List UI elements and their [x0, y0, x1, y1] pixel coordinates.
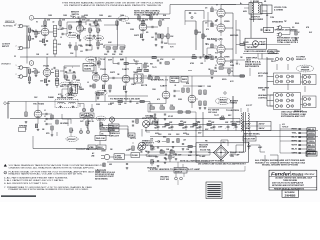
svg-text:V3: V3 — [14, 56, 16, 58]
svg-text:BLU: BLU — [308, 145, 315, 147]
svg-text:.022: .022 — [80, 51, 83, 53]
svg-text:1500: 1500 — [40, 81, 43, 83]
svg-text:.01: .01 — [44, 121, 46, 123]
svg-text:BLU: BLU — [292, 137, 298, 139]
svg-text:525V: 525V — [158, 134, 162, 136]
svg-text:INTENSITY: INTENSITY — [68, 139, 77, 141]
svg-text:1500: 1500 — [39, 41, 42, 43]
svg-text:6.3V CT: 6.3V CT — [246, 105, 252, 107]
svg-text:.02: .02 — [133, 60, 135, 62]
svg-text:250K: 250K — [119, 54, 122, 56]
svg-text:3 WIRE: 3 WIRE — [101, 151, 106, 153]
svg-text:20UF: 20UF — [182, 128, 186, 130]
svg-text:PULL: PULL — [126, 23, 130, 25]
svg-text:-52V: -52V — [183, 140, 186, 142]
svg-text:V9: V9 — [215, 41, 217, 43]
svg-text:VIBRATO: VIBRATO — [1, 62, 11, 65]
svg-text:SELECTOR: SELECTOR — [244, 139, 255, 141]
svg-text:INTENSITY: INTENSITY — [142, 143, 154, 145]
svg-text:.02: .02 — [46, 54, 48, 56]
svg-text:FUSE: FUSE — [132, 155, 138, 157]
svg-text:.001: .001 — [172, 59, 175, 61]
svg-text:1500: 1500 — [55, 80, 59, 82]
svg-text:OUT: OUT — [80, 121, 84, 123]
svg-text:CHOKE: CHOKE — [145, 116, 153, 118]
svg-text:220K: 220K — [192, 55, 195, 57]
svg-text:JUMPER: JUMPER — [301, 67, 310, 69]
svg-text:FROM AMP: FROM AMP — [294, 110, 304, 113]
svg-text:OUTPUT: OUTPUT — [251, 17, 260, 19]
svg-text:THIS FENDER MANUFACTURER UNDER: THIS FENDER MANUFACTURER UNDER ONE OR MO… — [62, 1, 164, 4]
svg-text:25UF: 25UF — [178, 155, 182, 157]
svg-text:INSTRUMENT OUTPUT: INSTRUMENT OUTPUT — [277, 38, 299, 40]
svg-text:10K: 10K — [124, 103, 127, 105]
svg-text:TO SPKR: TO SPKR — [296, 57, 306, 59]
svg-text:REV TR: REV TR — [141, 85, 148, 87]
svg-text:BLK: BLK — [292, 149, 298, 151]
svg-text:REVERB: REVERB — [171, 78, 179, 80]
svg-text:SPEED: SPEED — [84, 116, 91, 118]
svg-text:2: 2 — [16, 46, 17, 48]
svg-text:20MF: 20MF — [190, 127, 194, 129]
svg-text:VOICE COIL: VOICE COIL — [274, 7, 287, 9]
svg-text:820: 820 — [146, 32, 149, 34]
svg-text:7025: 7025 — [43, 66, 49, 68]
svg-text:TREMOLO: TREMOLO — [109, 133, 121, 135]
svg-text:220V: 220V — [259, 124, 265, 126]
svg-text:SPST: SPST — [126, 150, 130, 152]
svg-text:B+: B+ — [240, 3, 242, 5]
svg-text:.01: .01 — [44, 116, 46, 118]
svg-text:500PF: 500PF — [108, 60, 112, 62]
svg-text:READING TAKEN WITH ALL VOLUME: READING TAKEN WITH ALL VOLUME CONTROLS S… — [9, 173, 84, 176]
svg-text:.01: .01 — [174, 85, 176, 87]
svg-text:LINE: LINE — [91, 155, 94, 157]
svg-text:20MF: 20MF — [218, 127, 222, 129]
svg-text:TREBLE: TREBLE — [62, 84, 69, 86]
svg-text:500PF: 500PF — [134, 35, 139, 37]
svg-text:100K: 100K — [170, 36, 173, 38]
svg-text:V6 7025: V6 7025 — [33, 104, 44, 106]
svg-text:POWER: POWER — [230, 101, 239, 103]
svg-text:SLOPE: SLOPE — [58, 29, 63, 31]
svg-text:.01: .01 — [215, 65, 217, 67]
svg-text:VIB: VIB — [89, 147, 94, 149]
svg-text:25K: 25K — [129, 135, 134, 137]
svg-text:470: 470 — [230, 61, 233, 64]
svg-text:TO PI: TO PI — [170, 47, 174, 49]
svg-text:INSTRUMENTS: INSTRUMENTS — [245, 66, 259, 68]
svg-text:115V: 115V — [222, 142, 225, 144]
svg-text:820 NFB: 820 NFB — [243, 42, 249, 44]
svg-text:CIRCUIT: CIRCUIT — [109, 135, 119, 137]
svg-text:TO V4: TO V4 — [100, 58, 105, 61]
svg-text:EXPORT MODEL: EXPORT MODEL — [244, 134, 260, 136]
svg-text:PILOT: PILOT — [260, 42, 266, 44]
svg-text:100K: 100K — [120, 60, 123, 62]
svg-text:JEWEL LT: JEWEL LT — [296, 59, 306, 61]
svg-text:7025: 7025 — [139, 21, 145, 23]
svg-text:500PF: 500PF — [110, 72, 115, 74]
svg-text:REV: REV — [98, 147, 103, 149]
svg-text:FOOT SW: FOOT SW — [160, 179, 170, 181]
svg-text:POST: POST — [121, 18, 127, 20]
svg-text:20UF: 20UF — [168, 128, 172, 130]
svg-text:.01: .01 — [44, 110, 46, 112]
svg-text:PILOT: PILOT — [271, 61, 276, 63]
svg-text:MODEL SHOWN WITH OPTIONS: MODEL SHOWN WITH OPTIONS — [262, 165, 298, 167]
svg-text:470: 470 — [157, 98, 160, 101]
svg-text:RING: RING — [295, 23, 300, 25]
svg-text:60HZ: 60HZ — [258, 147, 262, 149]
svg-text:250K: 250K — [104, 54, 107, 56]
svg-text:TO FOOT SW: TO FOOT SW — [76, 149, 90, 151]
svg-text:470: 470 — [206, 28, 209, 31]
svg-text:4. ALL PART NUMBERS ARE FENDE: 4. ALL PART NUMBERS ARE FENDER PART NUMB… — [4, 176, 69, 179]
svg-text:PREAMP MODELS WITH SERIAL NUMB: PREAMP MODELS WITH SERIAL NUMBERS PRIOR … — [9, 188, 90, 191]
svg-text:5. ALL CAPACITORS AT LEAST 40: 5. ALL CAPACITORS AT LEAST 400 VOLT RATI… — [4, 179, 65, 182]
svg-text:26488: 26488 — [285, 194, 297, 197]
svg-text:NORMAL: NORMAL — [3, 24, 14, 27]
svg-text:VOLUME: VOLUME — [68, 35, 76, 37]
svg-text:1500: 1500 — [152, 89, 156, 91]
svg-text:.02: .02 — [87, 82, 89, 84]
svg-text:1: 1 — [16, 65, 17, 67]
svg-text:COIL: COIL — [269, 52, 275, 54]
svg-text:OHM: OHM — [230, 65, 235, 67]
svg-text:TO PT: TO PT — [214, 115, 219, 117]
svg-text:MIX: MIX — [182, 79, 187, 81]
svg-text:.02: .02 — [60, 37, 62, 39]
svg-text:REV: REV — [150, 64, 153, 66]
svg-text:MVOL: MVOL — [222, 79, 227, 81]
svg-text:50-60 HZ: 50-60 HZ — [200, 150, 210, 152]
svg-text:220K: 220K — [100, 94, 103, 96]
svg-text:20MF: 20MF — [169, 122, 173, 124]
svg-text:50HZ: 50HZ — [247, 146, 251, 148]
svg-text:TWIN REVERB: TWIN REVERB — [283, 180, 298, 182]
svg-text:100K: 100K — [170, 105, 173, 107]
svg-text:2: 2 — [16, 74, 17, 76]
svg-text:PHASE: PHASE — [48, 96, 55, 99]
svg-text:TO AMP: TO AMP — [199, 155, 206, 158]
svg-text:YEL: YEL — [308, 141, 315, 143]
svg-text:REV IN: REV IN — [88, 121, 94, 123]
svg-text:GND: GND — [109, 164, 112, 166]
svg-text:EXT SPKR: EXT SPKR — [258, 73, 269, 75]
svg-text:SWITCH: SWITCH — [72, 14, 80, 16]
svg-text:REV: REV — [79, 87, 82, 89]
svg-text:TO PI: TO PI — [152, 67, 157, 69]
svg-text:Fender: Fender — [271, 172, 290, 177]
svg-text:BRN: BRN — [308, 149, 315, 151]
svg-text:20MF: 20MF — [162, 127, 166, 129]
svg-text:.02: .02 — [60, 26, 62, 28]
svg-text:250K: 250K — [112, 54, 115, 56]
svg-text:Rhodes: Rhodes — [292, 172, 304, 176]
svg-text:CONTROL: CONTROL — [258, 97, 267, 99]
svg-text:V10: V10 — [215, 53, 218, 55]
svg-text:110V: 110V — [245, 124, 251, 126]
svg-text:FUSE: FUSE — [253, 1, 259, 3]
svg-text:820: 820 — [292, 27, 294, 29]
svg-text:3: 3 — [5, 173, 6, 175]
svg-text:TO GRIDS: TO GRIDS — [208, 110, 219, 112]
svg-text:Member: Member — [305, 173, 315, 176]
svg-text:7025: 7025 — [41, 26, 47, 28]
svg-text:MATCHED: MATCHED — [230, 34, 239, 37]
svg-text:SCREEN: SCREEN — [224, 21, 229, 23]
svg-text:100K: 100K — [186, 134, 189, 136]
svg-text:SILICON: SILICON — [199, 144, 208, 146]
svg-text:.02: .02 — [52, 22, 54, 24]
svg-text:6.3V: 6.3V — [282, 124, 285, 126]
svg-text:.022: .022 — [80, 46, 83, 48]
svg-text:V7: V7 — [216, 5, 218, 7]
svg-text:WHT: WHT — [292, 145, 298, 147]
svg-text:500V: 500V — [176, 134, 180, 136]
svg-text:GND: GND — [262, 90, 265, 92]
svg-text:V1: V1 — [36, 22, 38, 24]
svg-text:VIB-REV: VIB-REV — [160, 177, 169, 179]
svg-text:100K: 100K — [160, 105, 163, 107]
svg-text:VIB CH: VIB CH — [84, 66, 93, 68]
svg-text:3W: 3W — [110, 149, 113, 151]
svg-text:DIODES: DIODES — [199, 147, 207, 149]
svg-text:20UF: 20UF — [196, 128, 200, 130]
svg-text:TREMOLO: TREMOLO — [142, 140, 154, 142]
svg-text:OF 6L6: OF 6L6 — [208, 112, 217, 114]
svg-text:2M SPEED: 2M SPEED — [60, 123, 69, 125]
svg-text:EXPORT: EXPORT — [296, 185, 304, 187]
svg-text:470: 470 — [206, 43, 209, 46]
svg-text:.001: .001 — [200, 63, 203, 65]
svg-text:20MF: 20MF — [211, 122, 215, 124]
svg-text:GRN: GRN — [308, 133, 315, 135]
svg-text:.02: .02 — [51, 69, 53, 71]
svg-text:20UF: 20UF — [210, 128, 214, 130]
svg-text:70UF: 70UF — [154, 128, 158, 130]
svg-text:20MF: 20MF — [225, 122, 229, 124]
svg-text:10K: 10K — [101, 134, 103, 136]
svg-text:25UF: 25UF — [155, 157, 159, 159]
svg-text:V1: V1 — [14, 25, 16, 27]
svg-text:6. ALL RESISTORS 1/2 WATT 10%: 6. ALL RESISTORS 1/2 WATT 10%. — [4, 182, 49, 185]
svg-text:100K: 100K — [208, 55, 211, 57]
svg-text:FOOT: FOOT — [175, 169, 181, 171]
svg-text:220K: 220K — [150, 139, 153, 141]
svg-text:7025: 7025 — [100, 69, 106, 71]
svg-text:FILTER: FILTER — [115, 158, 122, 160]
svg-text:SCREEN: SCREEN — [224, 57, 229, 59]
svg-text:7025: 7025 — [76, 22, 82, 24]
svg-text:120V: 120V — [245, 128, 251, 130]
svg-text:500PF: 500PF — [110, 103, 114, 105]
svg-text:1W: 1W — [240, 57, 243, 59]
svg-text:100: 100 — [194, 13, 196, 15]
svg-text:V8: V8 — [216, 20, 218, 22]
svg-text:COM: COM — [270, 17, 275, 19]
svg-text:.01: .01 — [203, 55, 205, 57]
svg-text:CHASSIS GROUND. ALL READINGS: CHASSIS GROUND. ALL READINGS TAKEN WITH … — [9, 166, 96, 169]
svg-text:GND LUG: GND LUG — [307, 154, 317, 156]
svg-text:TREBLE: TREBLE — [86, 38, 93, 40]
svg-text:100K: 100K — [70, 53, 73, 55]
svg-text:25UF: 25UF — [164, 43, 167, 45]
svg-text:TO PILOT: TO PILOT — [282, 127, 289, 129]
svg-text:US PATENTS AND/OR PATENTS PEND: US PATENTS AND/OR PATENTS PENDING AND PA… — [64, 4, 162, 7]
svg-text:100K: 100K — [168, 134, 171, 136]
svg-text:NOTE: VOLUME CONTROL: NOTE: VOLUME CONTROL — [134, 10, 160, 12]
svg-text:250K: 250K — [58, 44, 61, 46]
svg-text:LINE: LINE — [115, 155, 121, 157]
svg-text:20MF: 20MF — [183, 122, 187, 124]
svg-text:YEL: YEL — [292, 133, 298, 135]
svg-text:12AT7: 12AT7 — [131, 83, 136, 86]
